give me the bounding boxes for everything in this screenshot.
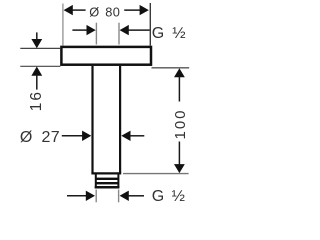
pipe left edge <box>91 66 93 173</box>
svg-text:Ø: Ø <box>20 129 32 146</box>
thread stub bar 1 <box>95 178 119 180</box>
svg-text:G: G <box>152 25 164 42</box>
dim 100 upper shaft <box>178 77 180 102</box>
dim 100 top extension line <box>152 67 190 69</box>
dim G1/2 bottom left arrow <box>86 191 95 201</box>
dim Ø80 left extension line <box>62 4 64 46</box>
svg-text:16: 16 <box>28 90 45 111</box>
dim Ø27 left arrow <box>82 131 91 141</box>
dim G1/2 top left shaft <box>72 29 87 31</box>
dim G1/2 top right arrow <box>120 25 129 35</box>
dim G1/2 top left extension line <box>95 23 97 45</box>
dim Ø27 right shaft <box>130 135 144 137</box>
dim G1/2 bottom right shaft <box>128 195 144 197</box>
dim 16 down arrow <box>31 39 42 48</box>
svg-text:80: 80 <box>105 4 120 19</box>
thread stub right edge <box>117 175 119 189</box>
dim 100 bottom extension line <box>123 173 189 175</box>
dim 16 up shaft <box>36 75 38 90</box>
dim Ø80 right extension line <box>149 3 151 46</box>
thread stub left edge <box>95 175 97 189</box>
pipe right edge <box>119 66 121 173</box>
dim 16 up arrow <box>31 67 42 76</box>
thread stub bar 2 <box>95 182 119 184</box>
dim G1/2 bottom right arrow <box>120 191 129 201</box>
dim Ø80 right shaft <box>124 9 140 11</box>
dim Ø27 left shaft <box>62 135 83 137</box>
svg-text:100: 100 <box>172 108 189 139</box>
dim G1/2 top right shaft <box>128 29 150 31</box>
dim G1/2 top left arrow <box>87 25 96 35</box>
dim G1/2 bottom left extension line <box>95 190 97 203</box>
dim 16 bottom extension line <box>20 65 60 67</box>
dim 100 down arrow <box>174 164 185 173</box>
dim 16 top extension line <box>20 47 60 49</box>
svg-text:½: ½ <box>172 188 185 205</box>
svg-text:27: 27 <box>42 129 61 146</box>
dim Ø80 left arrow <box>64 5 73 15</box>
dim G1/2 bottom right extension line <box>118 190 120 203</box>
ceiling plate body <box>61 47 151 65</box>
dim 100 up arrow <box>174 68 185 77</box>
dim 100 lower shaft <box>178 142 180 165</box>
svg-text:Ø: Ø <box>89 4 99 19</box>
dim G1/2 bottom left shaft <box>67 195 87 197</box>
dim Ø27 right arrow <box>121 131 130 141</box>
pipe bottom shoulder <box>91 172 121 174</box>
svg-text:G: G <box>152 188 164 205</box>
svg-text:½: ½ <box>172 25 185 42</box>
dim 16 down shaft <box>36 32 38 40</box>
thread stub bottom bar <box>95 186 120 189</box>
dim Ø80 right arrow <box>140 5 149 15</box>
dim G1/2 top right extension line <box>118 23 120 45</box>
dim Ø80 left shaft <box>73 9 86 11</box>
